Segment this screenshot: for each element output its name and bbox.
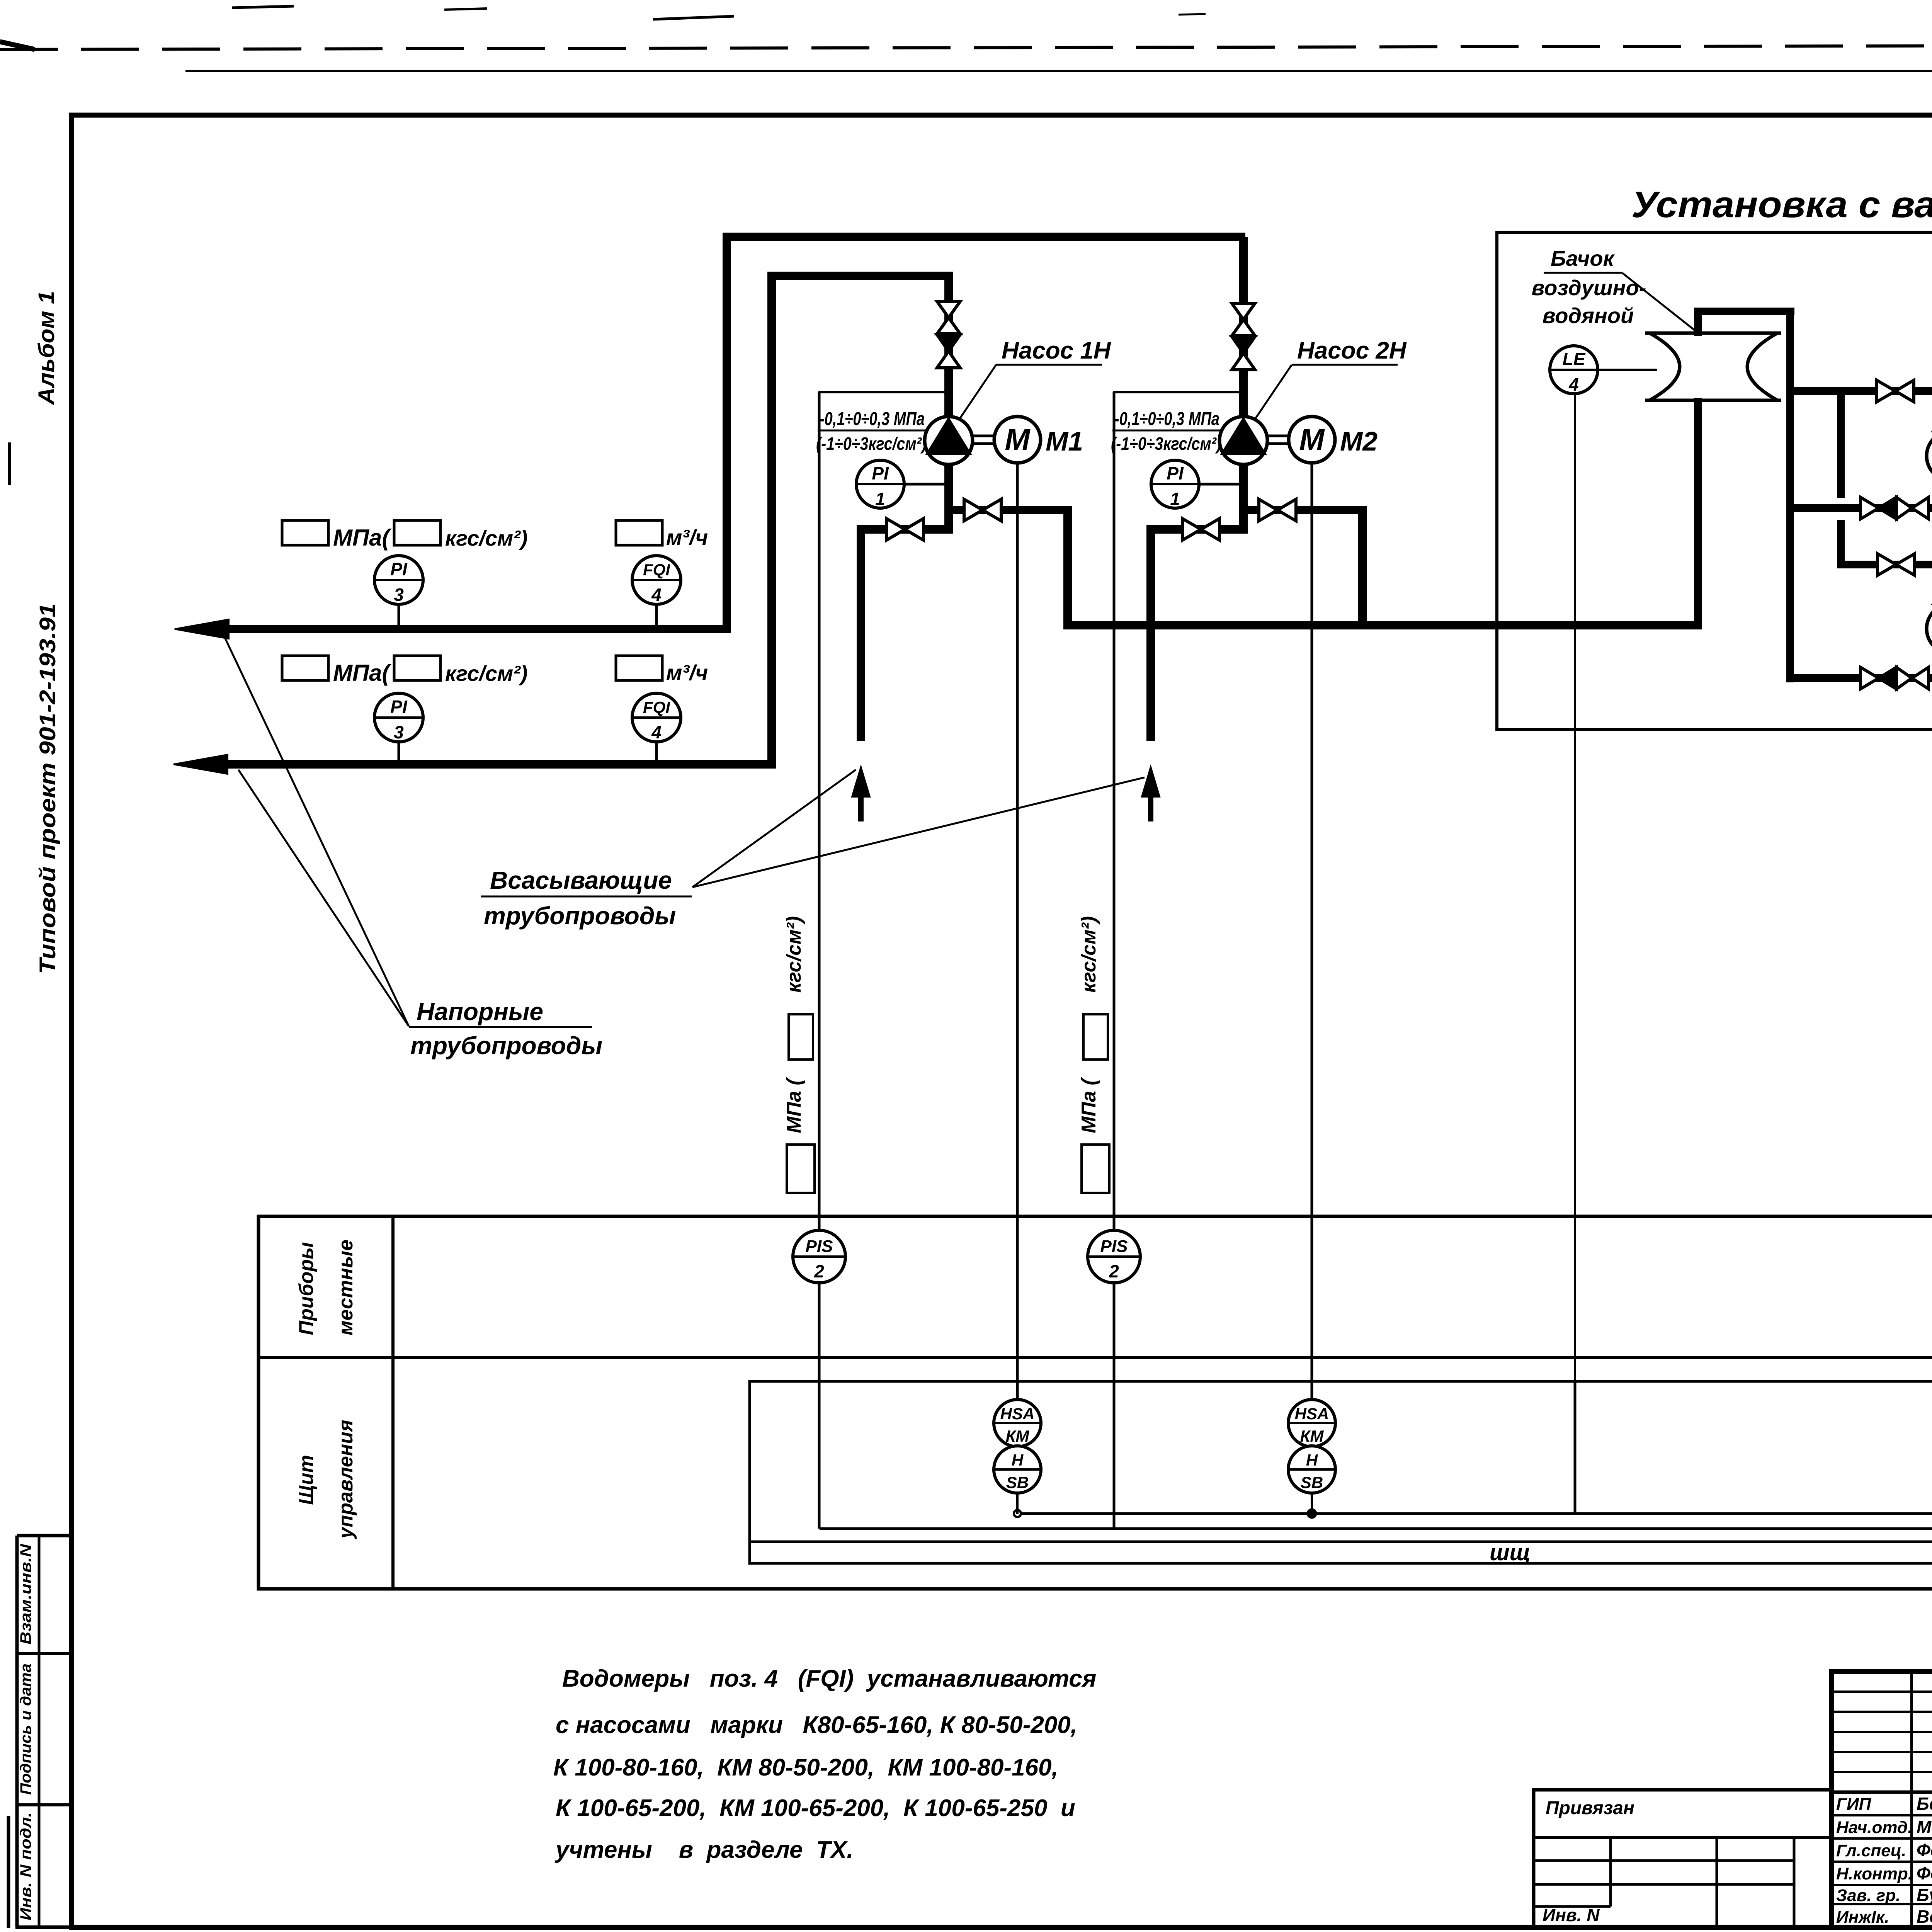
suction manifold to vacuum unit bbox=[1063, 621, 1702, 629]
LE-4 signal line down to panel bbox=[1574, 394, 1576, 1381]
svg-text:Н.контр.: Н.контр. bbox=[1836, 1864, 1913, 1883]
VP2 suction branch line bbox=[1837, 565, 1932, 575]
valve stack on pump 1 riser (gate + check) bbox=[937, 301, 960, 368]
svg-text:Насос 2Н: Насос 2Н bbox=[1297, 337, 1407, 364]
svg-text:МПа (: МПа ( bbox=[783, 1077, 805, 1133]
jumper pipe between suction branches bbox=[1837, 387, 1845, 568]
svg-text:Инв. N подл.: Инв. N подл. bbox=[17, 1812, 34, 1920]
hand switch HSA/KM bbox=[1288, 1400, 1335, 1447]
pump 2 suction riser down bbox=[1146, 525, 1155, 741]
svg-text:Приборы: Приборы bbox=[295, 1242, 318, 1335]
svg-text:Федотов: Федотов bbox=[1917, 1840, 1932, 1860]
svg-text:м³/ч: м³/ч bbox=[666, 660, 708, 685]
svg-text:-0,1÷0÷0,3 МПа: -0,1÷0÷0,3 МПа bbox=[820, 409, 925, 429]
panel boundary box (шщ) bbox=[750, 1381, 1932, 1563]
svg-text:FQI: FQI bbox=[643, 561, 670, 579]
label Насос 2Н with leader bbox=[1253, 337, 1407, 422]
svg-text:Вестерская: Вестерская bbox=[1917, 1906, 1932, 1927]
svg-text:H: H bbox=[1012, 1451, 1024, 1469]
motor M2 control line down bbox=[1311, 463, 1313, 1400]
attachment table Привязан bbox=[1534, 1790, 1832, 1928]
svg-text:Бачок: Бачок bbox=[1551, 246, 1615, 270]
coupling pump2-M2 bbox=[1268, 436, 1288, 444]
svg-text:4: 4 bbox=[1568, 374, 1579, 395]
svg-text:М1: М1 bbox=[1046, 426, 1083, 456]
pump 1 suction line left bbox=[857, 525, 953, 534]
svg-text:Белянинов: Белянинов bbox=[1917, 1794, 1932, 1814]
pressure gauge PI-1 (pump 2) bbox=[1151, 460, 1239, 509]
svg-text:PI: PI bbox=[390, 697, 408, 717]
label M1 bbox=[1046, 426, 1083, 456]
pump 2 (Насос 2Н) bbox=[1219, 417, 1267, 464]
svg-text:PIS: PIS bbox=[1100, 1237, 1128, 1256]
vacuum pump 1ВН bbox=[1927, 431, 1932, 481]
svg-text:(-1÷0÷3кгс/см²): (-1÷0÷3кгс/см²) bbox=[1111, 434, 1221, 454]
svg-text:Установка с вакуум-насосами: Установка с вакуум-насосами bbox=[1631, 184, 1932, 225]
motor M1 control line down bbox=[1016, 463, 1019, 1400]
label: Всасывающие трубопроводы with leaders bbox=[481, 770, 1145, 930]
svg-text:с насосами марки К80-65-16: с насосами марки К80-65-160, К 80-50-200… bbox=[556, 1712, 1077, 1738]
unit note column (pump 2 tap) bbox=[1078, 916, 1109, 1193]
air-water tank (Бачок воздушно-водяной) bbox=[1645, 333, 1781, 400]
pressure switch PIS-2 (pump 1) bbox=[793, 1230, 845, 1529]
svg-text:ИнжIк.: ИнжIк. bbox=[1836, 1908, 1889, 1927]
svg-text:Привязан: Привязан bbox=[1546, 1798, 1634, 1818]
gate+check valve on VP1 discharge bbox=[1861, 497, 1929, 519]
margin text: Альбом 1 bbox=[34, 291, 59, 406]
control bus line with arrow to ЭМ-5 bbox=[1017, 1512, 1932, 1515]
svg-text:местные: местные bbox=[335, 1240, 357, 1335]
margin stamp boxes (Взам.инв.N / Подпись и дата / Инв.N подл.) bbox=[15, 1536, 71, 1927]
riser from pipeline 1 up bbox=[723, 237, 731, 633]
tank bottom pipe to manifold bbox=[1694, 398, 1702, 629]
svg-text:М2: М2 bbox=[1340, 426, 1378, 456]
svg-text:Типовой проект 901-2-193.91: Типовой проект 901-2-193.91 bbox=[35, 603, 60, 974]
svg-text:HSA: HSA bbox=[1295, 1405, 1329, 1423]
svg-text:M: M bbox=[1005, 422, 1031, 456]
svg-text:Инв. N: Инв. N bbox=[1543, 1905, 1600, 1925]
svg-text:МПа(: МПа( bbox=[333, 525, 392, 551]
vacuum unit enclosure box bbox=[1497, 232, 1932, 730]
svg-text:Водомеры поз. 4 (FQI) уст: Водомеры поз. 4 (FQI) устанавливаются bbox=[562, 1665, 1096, 1692]
label M2 bbox=[1340, 426, 1378, 456]
pressure indicator PI-3 (line 2) bbox=[374, 693, 423, 764]
svg-text:4: 4 bbox=[651, 722, 662, 742]
svg-text:Насос 1Н: Насос 1Н bbox=[1002, 337, 1111, 364]
svg-text:Зав. гр.: Зав. гр. bbox=[1836, 1886, 1900, 1905]
vacuum pump 2ВН bbox=[1927, 604, 1932, 653]
svg-text:шщ: шщ bbox=[1490, 1540, 1531, 1565]
svg-text:м³/ч: м³/ч bbox=[666, 525, 708, 549]
svg-text:Альбом 1: Альбом 1 bbox=[34, 291, 59, 406]
svg-text:водяной: водяной bbox=[1543, 303, 1634, 328]
svg-text:Подпись и дата: Подпись и дата bbox=[17, 1663, 34, 1795]
stem to bus bbox=[1016, 1492, 1019, 1514]
pressure switch PIS-2 (pump 2) bbox=[1088, 1230, 1140, 1529]
instrument table frame bbox=[259, 1216, 1932, 1589]
svg-text:МПа (: МПа ( bbox=[1078, 1077, 1100, 1133]
VP1 discharge line bbox=[1786, 504, 1932, 512]
pump 2 suction inflow arrow bbox=[1142, 767, 1160, 821]
svg-text:FQI: FQI bbox=[643, 698, 670, 717]
title block roles and names bbox=[1836, 1794, 1932, 1927]
valve stack on pump 2 riser bbox=[1232, 303, 1255, 370]
pushbutton H/SB bbox=[994, 1446, 1041, 1493]
svg-text:3: 3 bbox=[394, 585, 404, 605]
bus junction dots bbox=[1014, 1509, 1932, 1519]
svg-text:Москалец: Москалец bbox=[1917, 1817, 1932, 1837]
pressure indicator PI-3 (line 1) bbox=[374, 556, 423, 629]
valve on pump 2 bypass bbox=[1259, 499, 1296, 521]
valve on VP1 suction bbox=[1877, 380, 1914, 402]
svg-text:Фомина: Фомина bbox=[1917, 1863, 1932, 1883]
svg-text:PI: PI bbox=[390, 559, 408, 579]
pump 1 (Насос 1Н) bbox=[925, 417, 973, 464]
margin box label: Инв. N подл. bbox=[17, 1812, 34, 1920]
svg-text:M: M bbox=[1299, 422, 1325, 456]
level element LE-4 bbox=[1550, 346, 1598, 395]
pump 2 discharge riser bbox=[1239, 237, 1248, 417]
motor M1 bbox=[994, 417, 1041, 463]
label шщ bbox=[1490, 1540, 1531, 1565]
svg-text:К 100-80-160, КМ 80-50-200,: К 100-80-160, КМ 80-50-200, КМ 100-80-16… bbox=[553, 1754, 1058, 1781]
label: Бачок воздушно-водяной with leader bbox=[1532, 246, 1696, 332]
pump 1 discharge riser bbox=[944, 276, 953, 417]
pump 2 suction drop pipe bbox=[1239, 464, 1248, 534]
pump 1 suction riser down bbox=[857, 525, 865, 741]
unit display boxes row 1: МПа(кгс/см2), м3/ч bbox=[282, 520, 708, 551]
svg-text:кгс/см²): кгс/см²) bbox=[1078, 916, 1100, 993]
pressure gauge PI-1 (pump 1) bbox=[856, 460, 944, 509]
stem to bus bbox=[1311, 1492, 1313, 1514]
header line to pump 1 riser bbox=[767, 272, 953, 280]
scan artifact: top thin rule bbox=[185, 70, 1932, 72]
panel strip line continuing to arrow (ЭМ-5) bbox=[750, 1534, 1932, 1549]
svg-text:LE: LE bbox=[1563, 349, 1586, 369]
riser from pipeline 2 up bbox=[767, 276, 776, 769]
pushbutton H/SB bbox=[1288, 1446, 1335, 1493]
valve on pump 2 suction bbox=[1182, 519, 1219, 540]
svg-text:КМ: КМ bbox=[1006, 1427, 1030, 1445]
pump 1 unit boundary / impulse line bbox=[818, 392, 944, 1230]
pump 1 suction inflow arrow bbox=[852, 767, 870, 821]
tank top outlet pipe to header bbox=[1694, 311, 1794, 336]
svg-text:-0,1÷0÷0,3 МПа: -0,1÷0÷0,3 МПа bbox=[1114, 409, 1219, 429]
hand switch HSA/KM bbox=[994, 1400, 1041, 1447]
scan artifact: left edge streak bbox=[9, 442, 10, 1928]
svg-text:ГИП: ГИП bbox=[1836, 1795, 1872, 1814]
pump 2 pressure range note bbox=[1111, 409, 1223, 454]
svg-text:(-1÷0÷3кгс/см²): (-1÷0÷3кгс/см²) bbox=[816, 434, 927, 454]
svg-text:HSA: HSA bbox=[1000, 1405, 1035, 1423]
flow meter FQI-4 (line 1) bbox=[632, 556, 681, 629]
svg-text:PI: PI bbox=[1167, 463, 1184, 483]
title: Установка с вакуум-насосами bbox=[1631, 184, 1932, 225]
pump 1 bypass line right bbox=[944, 506, 1072, 514]
motor M2 bbox=[1289, 417, 1335, 463]
pump 2 bypass drop to manifold bbox=[1358, 510, 1367, 629]
vacuum header drop pipe bbox=[1786, 308, 1794, 682]
label: Напорные трубопроводы with leaders bbox=[223, 634, 602, 1060]
pump 2 suction line left bbox=[1146, 525, 1248, 534]
VP2 discharge line bbox=[1786, 674, 1932, 682]
svg-text:4: 4 bbox=[651, 585, 662, 605]
svg-text:Напорные: Напорные bbox=[417, 998, 543, 1026]
svg-text:Нач.отд.: Нач.отд. bbox=[1836, 1818, 1912, 1837]
scan artifact: top wavy dashed line bbox=[0, 6, 1932, 49]
svg-text:1: 1 bbox=[875, 489, 885, 509]
svg-text:кгс/см²): кгс/см²) bbox=[783, 916, 805, 993]
title block left grid bbox=[1832, 1672, 1932, 1927]
discharge pipeline 2 (lower, with left arrow) bbox=[173, 755, 776, 774]
row label: Щит управления bbox=[295, 1420, 357, 1539]
svg-text:Взам.инв.N: Взам.инв.N bbox=[17, 1544, 34, 1645]
svg-text:учтены в разделе ТХ.: учтены в разделе ТХ. bbox=[554, 1837, 854, 1863]
unit display boxes row 2 bbox=[282, 656, 708, 686]
flow meter FQI-4 (line 2) bbox=[632, 693, 681, 764]
unit note column (pump 1 tap) bbox=[783, 916, 815, 1193]
svg-text:трубопроводы: трубопроводы bbox=[410, 1032, 602, 1060]
svg-text:3: 3 bbox=[394, 722, 404, 742]
PIS signal bus bbox=[820, 1527, 1932, 1530]
svg-text:кгс/см²): кгс/см²) bbox=[445, 661, 527, 685]
valve on pump 1 bypass bbox=[964, 499, 1001, 521]
LE-4 link to tank bbox=[1598, 369, 1657, 371]
svg-text:SB: SB bbox=[1301, 1473, 1323, 1492]
svg-text:Всасывающие: Всасывающие bbox=[490, 866, 672, 894]
title block outer frame bbox=[1832, 1672, 1932, 1927]
VP1 suction branch line bbox=[1786, 391, 1932, 403]
svg-text:H: H bbox=[1306, 1451, 1318, 1469]
margin text: Типовой проект 901-2-193.91 bbox=[35, 603, 60, 974]
gate+check valve on VP2 discharge bbox=[1861, 667, 1929, 689]
svg-text:К 100-65-200, КМ 100-65-200,: К 100-65-200, КМ 100-65-200, К 100-65-25… bbox=[556, 1795, 1075, 1821]
valve on VP2 suction bbox=[1878, 554, 1915, 575]
pump 1 bypass drop to manifold bbox=[1063, 510, 1072, 629]
margin box label: Взам.инв.N bbox=[17, 1544, 34, 1645]
discharge pipeline 1 (upper, with left arrow) bbox=[175, 619, 731, 639]
row label: Приборы местные bbox=[295, 1240, 357, 1335]
pump 2 bypass line right bbox=[1239, 506, 1367, 514]
top header line A to pump 2 bbox=[723, 233, 1245, 241]
svg-text:КМ: КМ bbox=[1300, 1427, 1324, 1445]
svg-text:PI: PI bbox=[872, 463, 889, 483]
svg-text:2: 2 bbox=[814, 1261, 824, 1281]
svg-text:1: 1 bbox=[1170, 489, 1180, 509]
svg-text:PIS: PIS bbox=[806, 1237, 833, 1256]
pump 2 unit boundary / impulse line bbox=[1113, 392, 1239, 1230]
note about water meters bbox=[553, 1665, 1096, 1863]
coupling pump1-M1 bbox=[973, 436, 993, 444]
svg-text:Щит: Щит bbox=[295, 1455, 318, 1505]
svg-text:Гл.спец.: Гл.спец. bbox=[1836, 1841, 1906, 1860]
label Насос 1Н with leader bbox=[957, 337, 1111, 422]
svg-text:2: 2 bbox=[1109, 1261, 1119, 1281]
valve on pump 1 suction bbox=[886, 519, 923, 540]
svg-text:Бурыгин: Бурыгин bbox=[1917, 1885, 1932, 1905]
margin box label: Подпись и дата bbox=[17, 1663, 34, 1795]
pump 1 suction drop pipe bbox=[944, 464, 953, 534]
svg-text:управления: управления bbox=[335, 1420, 357, 1539]
svg-text:SB: SB bbox=[1006, 1473, 1029, 1492]
svg-text:трубопроводы: трубопроводы bbox=[484, 902, 676, 930]
svg-text:кгс/см²): кгс/см²) bbox=[445, 526, 527, 550]
internal divider of panel bbox=[1574, 1381, 1577, 1514]
svg-text:МПа(: МПа( bbox=[333, 660, 392, 686]
pump 1 pressure range note bbox=[816, 409, 928, 454]
